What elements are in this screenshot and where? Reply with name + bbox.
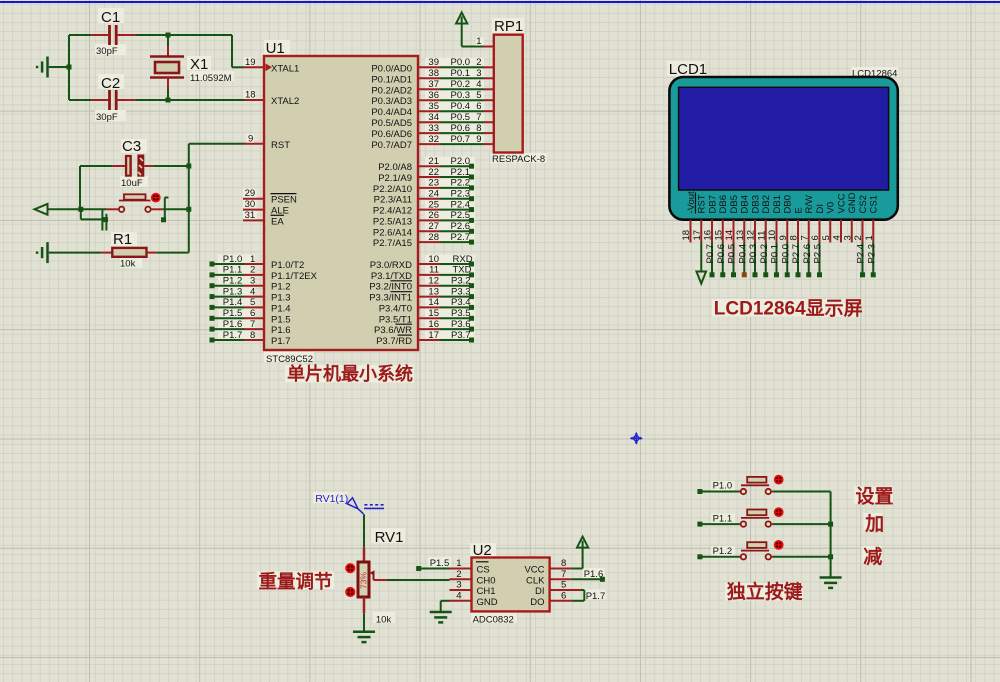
capacitor C2 — [69, 75, 136, 123]
svg-text:P0.2: P0.2 — [759, 244, 770, 264]
U2 pin 3 CH1 — [450, 580, 496, 598]
pin P3.4/T0 (14) with net stub P3.4 — [379, 297, 474, 314]
svg-text:VCC: VCC — [524, 565, 544, 576]
svg-text:CS1: CS1 — [869, 195, 880, 213]
svg-text:P1.3: P1.3 — [223, 286, 243, 297]
pin P3.1/TXD (11) with net stub TXD — [371, 265, 474, 282]
svg-text:RST: RST — [271, 140, 290, 151]
push button P1.2 — [697, 541, 830, 560]
pin P2.2/A10 (23) with net stub P2.2 — [373, 178, 474, 195]
svg-text:DB0: DB0 — [783, 195, 794, 213]
svg-text:P1.0: P1.0 — [223, 254, 243, 265]
node junction RST/C3 — [186, 164, 191, 169]
svg-text:35: 35 — [428, 101, 439, 112]
svg-text:11: 11 — [756, 231, 767, 241]
push button P1.1 — [697, 508, 830, 527]
svg-text:30: 30 — [245, 199, 256, 210]
U2 pin 2 CH0 — [450, 569, 496, 587]
U2 pin 7 CLK with net P1.6 — [526, 569, 605, 587]
svg-text:P1.2: P1.2 — [271, 282, 291, 293]
LCD pin 13 DB4 — [735, 195, 751, 277]
wire left vertical C1-C2 — [68, 35, 70, 100]
svg-text:10uF: 10uF — [121, 178, 143, 189]
svg-text:单片机最小系统: 单片机最小系统 — [287, 363, 413, 384]
svg-text:P1.7: P1.7 — [223, 330, 243, 341]
origin marker — [630, 432, 643, 445]
svg-text:P0.5/AD5: P0.5/AD5 — [371, 118, 412, 129]
svg-text:P0.7: P0.7 — [705, 244, 716, 264]
svg-text:TXD: TXD — [453, 265, 472, 276]
svg-text:DB3: DB3 — [750, 195, 761, 213]
svg-text:DB2: DB2 — [761, 195, 772, 213]
svg-text:29: 29 — [245, 188, 256, 199]
pin P2.4/A12 (25) with net stub P2.4 — [373, 199, 474, 216]
svg-text:P2.5/A13: P2.5/A13 — [373, 216, 412, 227]
svg-text:P1.1/T2EX: P1.1/T2EX — [271, 271, 318, 282]
LCD pin 1 CS1 — [864, 195, 880, 277]
label backgrounds — [95, 8, 898, 623]
svg-text:DO: DO — [530, 597, 544, 608]
svg-text:11.0592M: 11.0592M — [190, 73, 232, 84]
label 加 — [864, 513, 884, 535]
pin P0.3/AD3 (36) wire to RP1 pin 5 — [371, 90, 493, 107]
svg-text:7: 7 — [799, 235, 810, 240]
ADC U2 ADC0832 body — [472, 542, 550, 626]
svg-text:P2.5: P2.5 — [451, 210, 471, 221]
pin P1.3 (4) with net label P1.3 — [210, 286, 291, 303]
svg-text:24: 24 — [428, 189, 439, 200]
svg-text:C2: C2 — [101, 75, 120, 92]
label 独立按键 — [727, 580, 803, 603]
svg-text:CS: CS — [477, 565, 490, 576]
LCD pin 2 CS2 — [853, 195, 869, 277]
svg-text:39: 39 — [428, 57, 439, 68]
svg-text:DB1: DB1 — [772, 195, 783, 213]
svg-text:P0.3/AD3: P0.3/AD3 — [371, 96, 412, 107]
svg-text:13: 13 — [428, 286, 439, 297]
svg-text:33: 33 — [428, 123, 439, 134]
svg-text:P3.3/INT1: P3.3/INT1 — [369, 293, 412, 304]
node junction X1 top — [166, 33, 171, 38]
svg-text:23: 23 — [428, 178, 439, 189]
svg-text:P1.6: P1.6 — [584, 569, 604, 580]
svg-text:P0.4/AD4: P0.4/AD4 — [371, 107, 412, 118]
svg-text:3: 3 — [250, 276, 255, 287]
svg-text:GND: GND — [477, 597, 498, 608]
svg-text:5: 5 — [561, 580, 566, 591]
label 减 — [863, 545, 882, 568]
svg-text:4: 4 — [250, 286, 255, 297]
svg-text:10k: 10k — [120, 259, 136, 270]
svg-text:EA: EA — [271, 216, 284, 227]
svg-text:8: 8 — [561, 558, 566, 569]
svg-text:12: 12 — [428, 276, 439, 287]
svg-text:2: 2 — [853, 235, 864, 240]
svg-text:CS2: CS2 — [858, 195, 869, 213]
power arrow terminal (reset) — [35, 204, 81, 215]
svg-text:32: 32 — [428, 134, 439, 145]
wire RST vertical bus — [189, 144, 244, 253]
svg-text:V0: V0 — [826, 202, 837, 214]
ground (RV1) — [353, 613, 375, 642]
LCD pin-14 highlight — [725, 228, 737, 265]
svg-text:18: 18 — [245, 90, 256, 101]
LCD pin 3 GND — [842, 192, 858, 242]
svg-text:加: 加 — [864, 513, 884, 535]
pin P2.5/A13 (26) with net stub P2.5 — [373, 210, 474, 227]
node junction X1 bottom — [166, 98, 171, 103]
svg-text:6: 6 — [810, 235, 821, 240]
svg-text:RV1: RV1 — [375, 529, 404, 546]
wire RV1 wiper to U2 CH0 — [387, 579, 450, 581]
pin XTAL1 (19) — [244, 57, 299, 75]
RP1 pin 1 with VCC arrow — [456, 13, 494, 48]
svg-text:P2.4/A12: P2.4/A12 — [373, 206, 412, 217]
LCD1 module LCD12864 — [669, 61, 898, 220]
svg-text:P1.0: P1.0 — [713, 481, 733, 492]
svg-text:P1.1: P1.1 — [713, 513, 733, 524]
wire button to RST vertical — [162, 208, 188, 210]
svg-text:38: 38 — [428, 68, 439, 79]
svg-text:14: 14 — [724, 230, 735, 241]
wire R1 to RST vertical — [157, 252, 189, 254]
svg-text:26: 26 — [428, 210, 439, 221]
svg-text:R/W: R/W — [804, 195, 815, 214]
svg-text:P3.2/INT0: P3.2/INT0 — [369, 282, 412, 293]
pin P2.7/A15 (28) with net stub P2.7 — [373, 232, 474, 249]
svg-text:P3.6: P3.6 — [451, 319, 471, 330]
pin XTAL2 (18) — [244, 90, 299, 108]
svg-text:10: 10 — [767, 230, 778, 241]
svg-text:9: 9 — [248, 133, 253, 144]
potentiometer RV1 — [346, 514, 403, 625]
svg-text:P0.1: P0.1 — [770, 244, 781, 264]
LCD pin 14 DB5 — [724, 195, 740, 277]
svg-text:3: 3 — [476, 68, 481, 79]
U2 pin 1 CS with net P1.5 — [416, 558, 490, 576]
svg-text:P2.7/A15: P2.7/A15 — [373, 238, 412, 249]
svg-text:P2.6: P2.6 — [451, 221, 471, 232]
svg-text:P1.5: P1.5 — [271, 314, 291, 325]
sheet top border — [0, 1, 1000, 3]
svg-text:减: 减 — [863, 545, 882, 568]
svg-text:P1.6: P1.6 — [223, 319, 243, 330]
svg-text:P0.2/AD2: P0.2/AD2 — [371, 85, 412, 96]
label 设置 — [856, 486, 894, 508]
capacitor C3 (10uF electrolytic) — [80, 138, 189, 189]
svg-text:1: 1 — [250, 254, 255, 265]
svg-text:P3.2: P3.2 — [451, 276, 471, 287]
svg-text:PSEN: PSEN — [271, 195, 297, 206]
svg-text:2: 2 — [456, 569, 461, 580]
pin P2.1/A9 (22) with net stub P2.1 — [378, 167, 474, 184]
node junction reset-left — [78, 207, 106, 212]
pin P0.6/AD6 (33) wire to RP1 pin 8 — [371, 123, 493, 140]
svg-text:P0.7: P0.7 — [451, 134, 471, 145]
LCD pin 7 R/W — [799, 195, 815, 277]
svg-text:P3.3: P3.3 — [451, 286, 471, 297]
svg-text:P2.6/A14: P2.6/A14 — [373, 227, 412, 238]
svg-text:DB5: DB5 — [729, 195, 740, 213]
svg-text:73%: 73% — [358, 572, 368, 589]
svg-text:P3.7/RD: P3.7/RD — [376, 336, 412, 347]
svg-text:P1.1: P1.1 — [223, 265, 243, 276]
svg-text:6: 6 — [476, 101, 481, 112]
svg-text:P1.4: P1.4 — [271, 303, 291, 314]
pin P2.3/A11 (24) with net stub P2.3 — [374, 189, 474, 206]
svg-text:15: 15 — [428, 308, 439, 319]
svg-text:25: 25 — [428, 199, 439, 210]
wire button common bus — [830, 492, 832, 578]
svg-text:P2.1/A9: P2.1/A9 — [378, 173, 412, 184]
svg-text:DB4: DB4 — [740, 195, 751, 213]
LCD pin 5 V0 — [821, 202, 837, 243]
svg-text:1: 1 — [456, 558, 461, 569]
svg-text:DI: DI — [535, 586, 545, 597]
svg-text:9: 9 — [778, 235, 789, 240]
svg-text:15: 15 — [713, 230, 724, 241]
svg-text:3: 3 — [456, 580, 461, 591]
svg-text:P0.3: P0.3 — [451, 90, 471, 101]
svg-text:P2.4: P2.4 — [451, 199, 471, 210]
svg-text:DB6: DB6 — [718, 195, 729, 213]
wire XTAL1 net (C1 top rail to U1.XTAL1) — [69, 35, 244, 67]
LCD pin 17 RST — [692, 193, 708, 284]
svg-text:独立按键: 独立按键 — [727, 580, 803, 603]
svg-text:P0.5: P0.5 — [727, 244, 738, 264]
pin P3.7/RD (17) with net stub P3.7 — [376, 330, 474, 347]
svg-text:8: 8 — [250, 330, 255, 341]
pin P1.6 (7) with net label P1.6 — [210, 319, 291, 336]
svg-text:5: 5 — [821, 235, 832, 240]
pin EA (31) — [243, 210, 284, 228]
pin P1.2 (3) with net label P1.2 — [210, 276, 291, 293]
svg-text:P1.4: P1.4 — [223, 297, 243, 308]
svg-text:P0.7/AD7: P0.7/AD7 — [371, 140, 412, 151]
U2 pin 6 DO with net P1.7 — [530, 590, 605, 608]
svg-text:1: 1 — [476, 36, 481, 47]
U2 pin 4 GND — [450, 590, 498, 608]
svg-text:GND: GND — [847, 192, 858, 213]
svg-text:P2.0: P2.0 — [451, 156, 471, 167]
svg-text:P2.0/A8: P2.0/A8 — [378, 162, 412, 173]
svg-text:8: 8 — [789, 235, 800, 240]
node junction bus/P1.2 — [828, 554, 833, 559]
svg-text:34: 34 — [428, 112, 439, 123]
svg-text:P2.1: P2.1 — [451, 167, 471, 178]
svg-text:36: 36 — [428, 90, 439, 101]
svg-text:19: 19 — [245, 57, 256, 68]
wire XTAL2 net (C2 bottom rail to U1.XTAL2) — [136, 99, 244, 101]
svg-text:P0.2: P0.2 — [451, 79, 471, 90]
node junction bus/P1.1 — [828, 522, 833, 527]
ground (crystal) — [37, 57, 69, 78]
ground (U2) — [430, 601, 452, 623]
svg-text:30pF: 30pF — [96, 112, 118, 123]
ground (R1) — [37, 242, 101, 263]
svg-text:P0.1: P0.1 — [451, 68, 471, 79]
wire C3 left to arrow node — [79, 166, 81, 209]
svg-text:P0.6: P0.6 — [716, 244, 727, 264]
pin P0.0/AD0 (39) wire to RP1 pin 2 — [371, 57, 493, 74]
label 单片机最小系统 — [287, 363, 413, 384]
svg-text:P3.7: P3.7 — [451, 330, 471, 341]
svg-text:6: 6 — [561, 590, 566, 601]
svg-text:RXD: RXD — [453, 254, 473, 265]
svg-text:P1.3: P1.3 — [271, 293, 291, 304]
svg-text:CH1: CH1 — [477, 586, 496, 597]
svg-text:P2.7: P2.7 — [791, 244, 802, 264]
svg-text:5: 5 — [250, 297, 255, 308]
U2 pin 8 VCC with power arrow — [524, 537, 588, 576]
U2 pin 5 DI — [535, 580, 584, 601]
svg-text:13: 13 — [735, 230, 746, 241]
resistor pack RP1 RESPACK-8 — [492, 18, 545, 165]
svg-text:P0.0: P0.0 — [451, 57, 471, 68]
svg-text:P0.6: P0.6 — [451, 123, 471, 134]
pin P1.5 (6) with net label P1.5 — [210, 308, 291, 325]
svg-text:P2.2/A10: P2.2/A10 — [373, 184, 412, 195]
svg-text:RESPACK-8: RESPACK-8 — [492, 154, 545, 165]
svg-text:10k: 10k — [376, 615, 392, 626]
pin P0.5/AD5 (34) wire to RP1 pin 7 — [371, 112, 493, 129]
svg-text:9: 9 — [476, 134, 481, 145]
svg-text:4: 4 — [476, 79, 481, 90]
svg-text:5: 5 — [476, 90, 481, 101]
svg-text:2: 2 — [476, 57, 481, 68]
svg-text:P3.4: P3.4 — [451, 297, 471, 308]
svg-text:17: 17 — [692, 230, 703, 241]
svg-text:DI: DI — [815, 204, 826, 214]
svg-text:DB7: DB7 — [707, 195, 718, 213]
svg-text:P1.2: P1.2 — [713, 546, 733, 557]
svg-text:P2.3/A11: P2.3/A11 — [374, 195, 412, 206]
svg-text:U1: U1 — [266, 40, 285, 57]
pin P3.0/RXD (10) with net stub RXD — [370, 254, 474, 271]
svg-text:11: 11 — [429, 265, 439, 276]
pin P3.5/T1 (15) with net stub P3.5 — [379, 308, 474, 325]
LCD pin 10 DB1 — [767, 195, 783, 277]
svg-text:RV1(1): RV1(1) — [315, 493, 348, 505]
svg-text:RST: RST — [697, 194, 708, 213]
svg-text:27: 27 — [428, 221, 439, 232]
LCD pin 18 -Vout — [681, 191, 697, 243]
svg-text:P1.0/T2: P1.0/T2 — [271, 260, 304, 271]
svg-text:1: 1 — [864, 235, 875, 240]
svg-text:P2.7: P2.7 — [451, 232, 471, 243]
svg-text:X1: X1 — [190, 56, 208, 73]
svg-text:P2.5: P2.5 — [813, 244, 824, 264]
svg-text:U2: U2 — [473, 542, 492, 559]
pin PSEN (29) — [243, 188, 297, 206]
svg-text:6: 6 — [250, 308, 255, 319]
node junction C1/ground — [67, 65, 72, 70]
resistor R1 — [101, 231, 157, 270]
svg-text:16: 16 — [703, 230, 714, 241]
svg-text:P2.3: P2.3 — [451, 189, 471, 200]
pin P1.4 (5) with net label P1.4 — [210, 297, 291, 314]
crystal X1 — [150, 35, 232, 100]
svg-text:P2.3: P2.3 — [866, 244, 877, 264]
svg-text:22: 22 — [428, 167, 439, 178]
svg-text:E: E — [793, 207, 804, 213]
svg-text:XTAL2: XTAL2 — [271, 96, 299, 107]
wire reset-left lower L — [81, 209, 103, 219]
svg-text:P0.5: P0.5 — [451, 112, 471, 123]
pin P2.0/A8 (21) with net stub P2.0 — [378, 156, 474, 173]
button pins left (reset) — [102, 209, 108, 231]
svg-text:P1.6: P1.6 — [271, 325, 291, 336]
svg-text:P0.0/AD0: P0.0/AD0 — [371, 63, 412, 74]
svg-text:设置: 设置 — [856, 486, 894, 508]
pin P3.3/INT1 (13) with net stub P3.3 — [369, 286, 474, 303]
pin P0.7/AD7 (32) wire to RP1 pin 9 — [371, 134, 493, 151]
svg-text:P3.5: P3.5 — [451, 308, 471, 319]
pin P3.2/INT0 (12) with net stub P3.2 — [369, 276, 474, 293]
svg-text:P0.4: P0.4 — [737, 244, 748, 264]
svg-text:LCD12864显示屏: LCD12864显示屏 — [714, 298, 863, 320]
svg-text:P1.2: P1.2 — [223, 276, 243, 287]
svg-text:17: 17 — [428, 330, 439, 341]
node junction RST/button — [186, 207, 191, 212]
label 重量调节 — [259, 571, 333, 592]
pin RST (9) — [244, 133, 290, 151]
capacitor C1 — [92, 9, 136, 57]
svg-text:P2.2: P2.2 — [451, 178, 471, 189]
svg-text:4: 4 — [832, 235, 843, 240]
LCD pin 8 E — [789, 207, 805, 277]
LCD pin 11 DB2 — [756, 195, 772, 277]
svg-text:2: 2 — [250, 265, 255, 276]
svg-text:12: 12 — [746, 230, 757, 241]
svg-text:P1.7: P1.7 — [271, 336, 291, 347]
MCU U1 STC89C52 body — [264, 40, 418, 365]
svg-text:CLK: CLK — [526, 575, 545, 586]
LCD pin 9 DB0 — [778, 195, 794, 277]
svg-text:P3.0/RXD: P3.0/RXD — [370, 260, 412, 271]
pin P0.2/AD2 (37) wire to RP1 pin 4 — [371, 79, 493, 96]
LCD pin 12 DB3 — [746, 195, 762, 277]
pin P1.1/T2EX (2) with net label P1.1 — [210, 265, 318, 282]
svg-text:重量调节: 重量调节 — [259, 571, 333, 592]
svg-text:C1: C1 — [101, 9, 120, 26]
button pins right (reset) — [161, 198, 169, 223]
svg-text:3: 3 — [842, 235, 853, 240]
push button (reset) — [106, 194, 162, 212]
svg-text:P1.5: P1.5 — [223, 308, 243, 319]
svg-text:31: 31 — [245, 210, 256, 221]
pin P0.4/AD4 (35) wire to RP1 pin 6 — [371, 101, 493, 118]
svg-text:LCD1: LCD1 — [669, 61, 707, 78]
svg-text:P0.6/AD6: P0.6/AD6 — [371, 129, 412, 140]
ground (buttons) — [820, 578, 842, 588]
svg-text:18: 18 — [681, 230, 692, 241]
pin ALE (30) — [243, 199, 289, 217]
svg-text:21: 21 — [428, 156, 439, 167]
svg-text:P0.1/AD1: P0.1/AD1 — [371, 74, 412, 85]
label LCD12864显示屏 — [714, 298, 863, 320]
LCD pin 15 DB6 — [713, 195, 729, 277]
svg-text:RP1: RP1 — [494, 18, 523, 35]
probe RV1(1) — [315, 493, 384, 514]
svg-text:CH0: CH0 — [477, 575, 496, 586]
svg-text:7: 7 — [561, 569, 566, 580]
svg-text:P3.6/WR: P3.6/WR — [374, 325, 412, 336]
svg-text:30pF: 30pF — [96, 46, 118, 57]
svg-text:P2.6: P2.6 — [802, 244, 813, 264]
svg-text:7: 7 — [476, 112, 481, 123]
pin P1.7 (8) with net label P1.7 — [210, 330, 291, 347]
